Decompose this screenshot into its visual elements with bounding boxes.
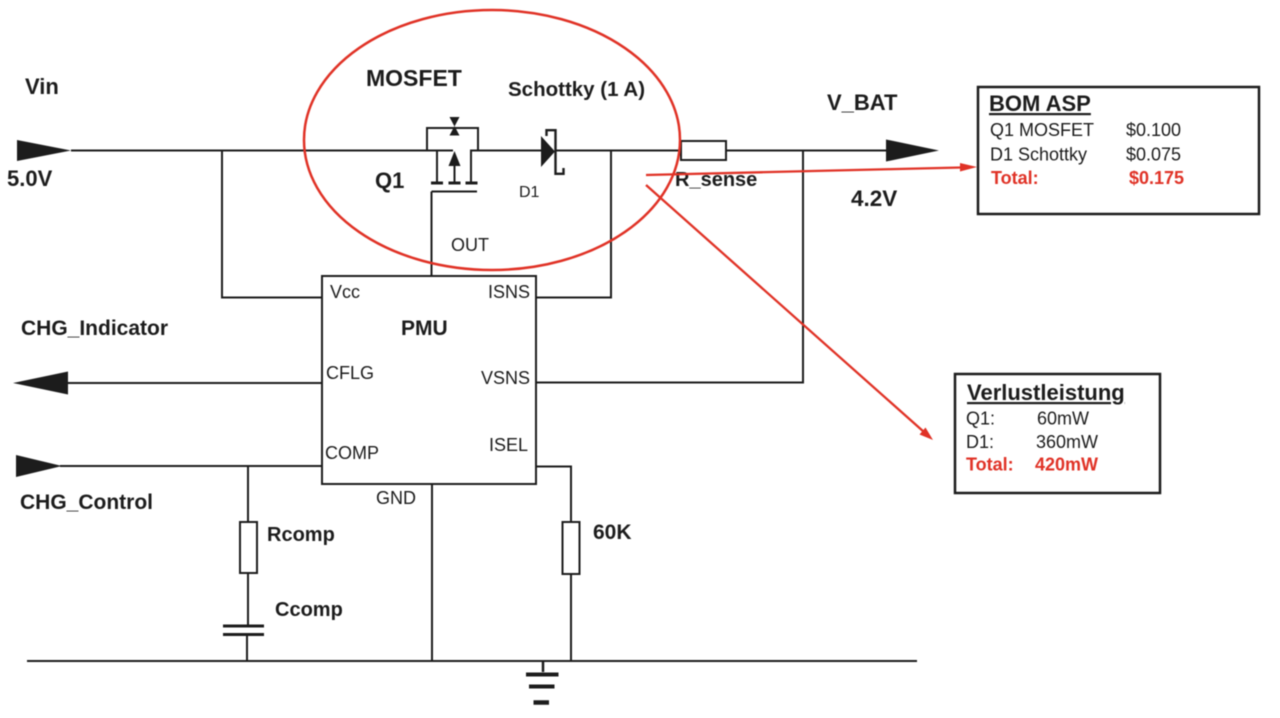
resistor R_sense bbox=[681, 141, 726, 160]
wire GND PMU bottom to ground rail bbox=[431, 484, 433, 661]
svg-text:CFLG: CFLG bbox=[326, 363, 374, 383]
svg-text:Q1: Q1 bbox=[375, 168, 404, 193]
svg-text:$0.175: $0.175 bbox=[1129, 168, 1184, 188]
svg-text:MOSFET: MOSFET bbox=[366, 65, 462, 91]
svg-text:420mW: 420mW bbox=[1035, 455, 1098, 475]
svg-text:COMP: COMP bbox=[325, 443, 379, 463]
svg-text:60mW: 60mW bbox=[1037, 409, 1089, 429]
svg-text:Schottky (1 A): Schottky (1 A) bbox=[508, 78, 645, 101]
wire CFLG to CHG_Indicator bbox=[66, 382, 322, 384]
svg-text:VSNS: VSNS bbox=[481, 368, 530, 388]
wire ISEL branch to 60K bbox=[536, 467, 571, 523]
wire Rcomp to Ccomp bbox=[247, 573, 249, 625]
svg-text:CHG_Indicator: CHG_Indicator bbox=[21, 317, 168, 340]
wire D1 cathode to R_sense bbox=[555, 150, 681, 152]
svg-text:Verlustleistung: Verlustleistung bbox=[967, 380, 1125, 405]
Verlustleistung table box bbox=[955, 374, 1160, 493]
svg-text:Total:: Total: bbox=[991, 168, 1039, 188]
transistor Q1 MOSFET bbox=[427, 128, 478, 192]
wire VSNS branch bbox=[536, 151, 803, 383]
resistor 60K bbox=[563, 522, 580, 574]
wire ground rail bbox=[27, 660, 917, 662]
node CHG_Indicator output arrow bbox=[13, 372, 68, 395]
svg-text:Rcomp: Rcomp bbox=[267, 524, 335, 546]
svg-text:Q1 MOSFET: Q1 MOSFET bbox=[990, 120, 1094, 140]
svg-text:5.0V: 5.0V bbox=[7, 166, 53, 191]
capacitor Ccomp bbox=[223, 626, 264, 635]
svg-text:BOM ASP: BOM ASP bbox=[989, 91, 1091, 116]
wire R_sense to V_BAT arrow bbox=[726, 150, 887, 152]
svg-text:V_BAT: V_BAT bbox=[827, 90, 898, 115]
wire ISNS branch bbox=[536, 151, 611, 298]
svg-text:360mW: 360mW bbox=[1036, 432, 1098, 452]
svg-text:CHG_Control: CHG_Control bbox=[20, 491, 153, 514]
wire COMP to CHG_Control bbox=[60, 465, 322, 467]
wire COMP branch down to Rcomp bbox=[247, 466, 249, 522]
svg-text:Ccomp: Ccomp bbox=[275, 599, 343, 621]
svg-text:ISEL: ISEL bbox=[489, 435, 528, 455]
node CHG_Control input arrow bbox=[16, 455, 62, 477]
wire Q1 drain to D1 anode bbox=[470, 150, 542, 152]
wire Vcc branch bbox=[222, 151, 322, 298]
highlight ellipse around Q1 and D1 bbox=[304, 10, 680, 270]
svg-text:D1: D1 bbox=[519, 184, 540, 201]
IC U1 PMU box bbox=[322, 276, 536, 484]
svg-text:Total:: Total: bbox=[966, 455, 1014, 475]
wire OUT PMU top to Q1 gate bbox=[431, 192, 433, 277]
callout arrow to Verlustleistung box bbox=[646, 185, 924, 432]
diode D1 Schottky bbox=[541, 136, 555, 167]
svg-text:D1 Schottky: D1 Schottky bbox=[990, 145, 1087, 165]
svg-text:OUT: OUT bbox=[451, 235, 489, 255]
svg-text:60K: 60K bbox=[593, 521, 632, 544]
resistor Rcomp bbox=[240, 522, 257, 573]
node V_BAT output arrow bbox=[886, 140, 939, 162]
svg-text:ISNS: ISNS bbox=[488, 282, 530, 302]
svg-text:GND: GND bbox=[376, 488, 416, 508]
svg-text:4.2V: 4.2V bbox=[851, 186, 897, 211]
wire 60K to ground rail bbox=[570, 574, 572, 661]
wire main input rail Vin to Q1 bbox=[71, 150, 453, 152]
node Vin input arrow bbox=[17, 140, 71, 161]
svg-text:D1:: D1: bbox=[966, 432, 994, 452]
callout arrow to BOM ASP box bbox=[646, 168, 961, 176]
BOM ASP table box bbox=[978, 87, 1259, 214]
svg-text:Vin: Vin bbox=[25, 74, 59, 99]
wire Ccomp to ground rail bbox=[246, 635, 248, 661]
svg-text:PMU: PMU bbox=[401, 317, 448, 340]
svg-text:$0.075: $0.075 bbox=[1126, 145, 1181, 165]
svg-text:$0.100: $0.100 bbox=[1126, 120, 1181, 140]
ground bbox=[526, 661, 559, 703]
svg-text:Q1:: Q1: bbox=[966, 409, 995, 429]
svg-text:Vcc: Vcc bbox=[330, 282, 360, 302]
